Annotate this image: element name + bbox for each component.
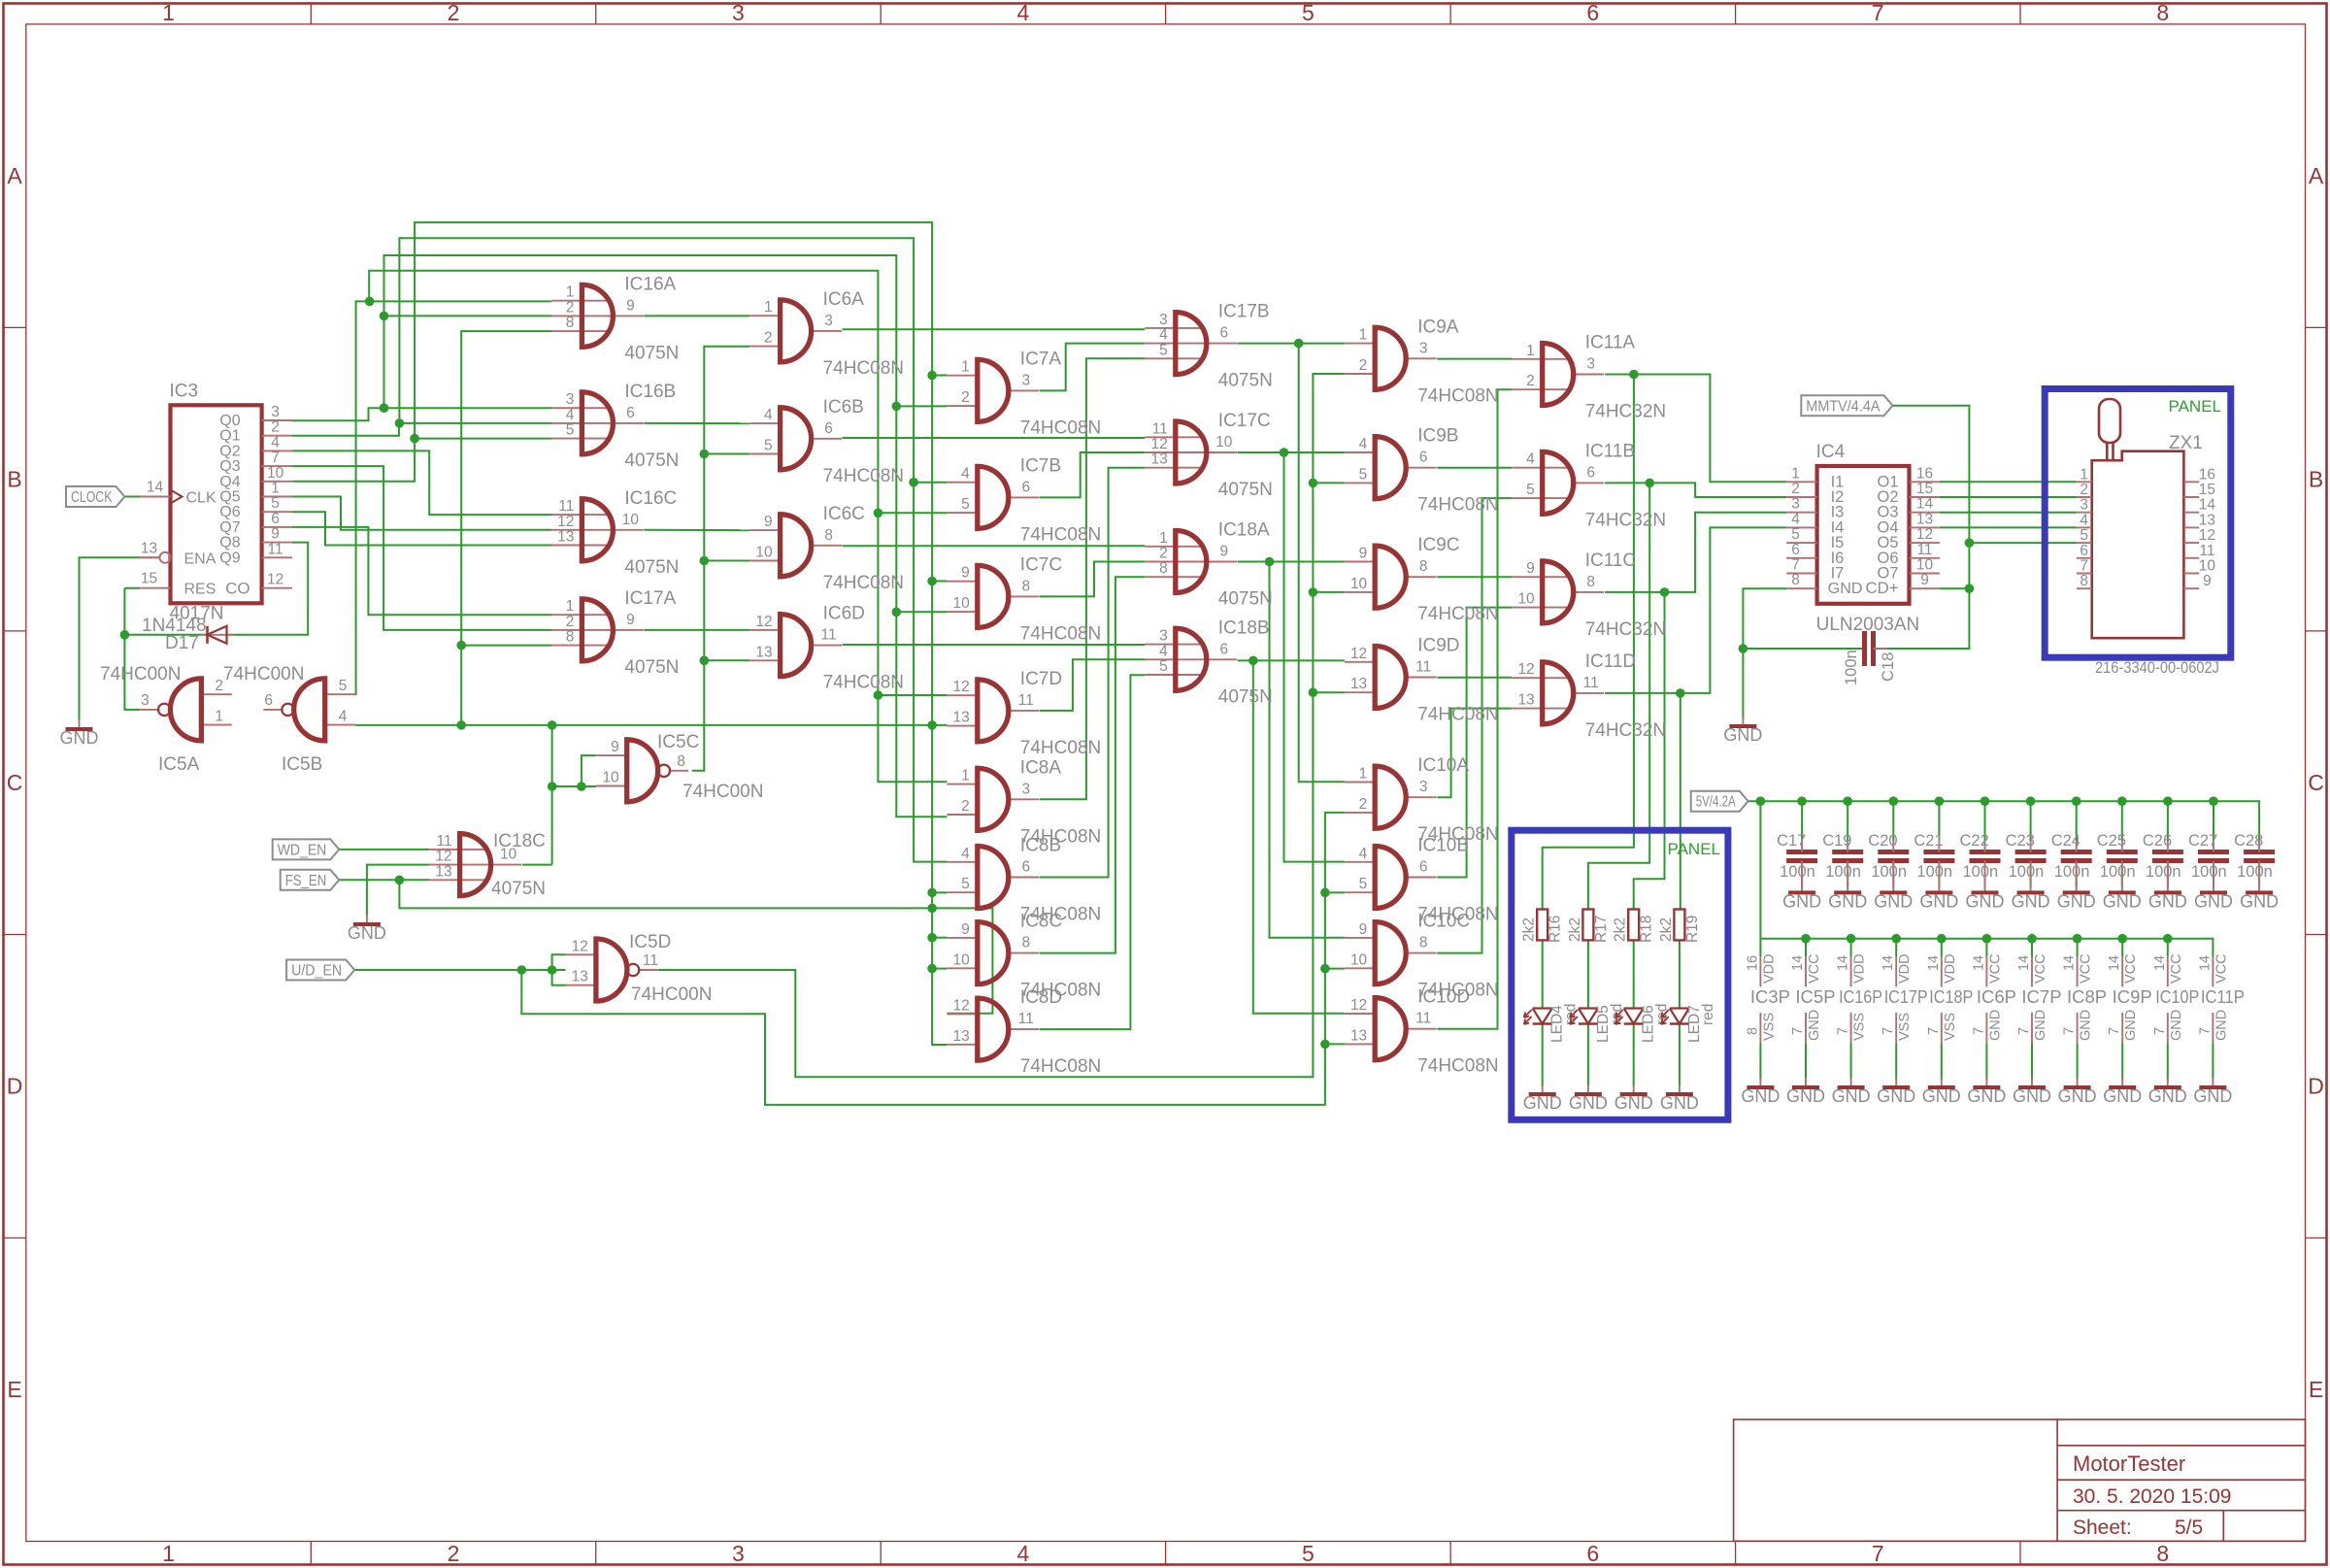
svg-text:IC8P: IC8P xyxy=(2067,986,2107,1007)
svg-text:14: 14 xyxy=(1916,496,1934,513)
svg-text:74HC32N: 74HC32N xyxy=(1585,619,1666,640)
OR gate IC16B (4075N) xyxy=(551,382,679,471)
svg-text:VDD: VDD xyxy=(1943,953,1958,984)
connector ZX1 216-3340-00-0602J body xyxy=(2077,399,2219,677)
wire LED to ground xyxy=(1542,1024,1544,1087)
AND gate IC6A (74HC08N) xyxy=(749,289,904,379)
wire branch to IC10A pin 1 xyxy=(1299,344,1345,783)
AND gate IC8D (74HC08N) xyxy=(947,987,1101,1077)
wire FS_EN branch to IC8D pin 12 xyxy=(399,880,992,1014)
wire IC5B output row to IC7D pin 13 xyxy=(355,724,947,726)
wire rail to capacitor xyxy=(1847,801,1848,841)
svg-text:C28: C28 xyxy=(2234,832,2263,850)
wire branch to IC10D pin 13 xyxy=(1325,1043,1345,1045)
svg-text:6: 6 xyxy=(626,405,635,421)
svg-text:74HC32N: 74HC32N xyxy=(1585,402,1666,422)
svg-text:13: 13 xyxy=(1517,692,1534,709)
svg-text:VCC: VCC xyxy=(1807,953,1822,984)
svg-text:11: 11 xyxy=(1583,675,1599,691)
svg-text:IC18A: IC18A xyxy=(1218,520,1270,541)
svg-text:R19: R19 xyxy=(1684,916,1701,943)
wire IC5D input tie xyxy=(552,954,566,984)
svg-text:C: C xyxy=(2308,770,2324,795)
svg-text:5: 5 xyxy=(339,678,348,694)
svg-text:IC18C: IC18C xyxy=(493,831,546,851)
svg-text:2: 2 xyxy=(448,1541,460,1566)
wire IC10A out to IC11D pin 13 xyxy=(1437,709,1512,798)
svg-text:4075N: 4075N xyxy=(624,657,679,678)
svg-text:Q3: Q3 xyxy=(219,458,240,475)
svg-text:2: 2 xyxy=(2080,482,2088,498)
svg-text:GND: GND xyxy=(2012,891,2050,911)
wire rail to capacitor xyxy=(1892,801,1894,841)
svg-text:8: 8 xyxy=(1159,560,1168,577)
svg-text:10: 10 xyxy=(953,951,971,968)
svg-text:11: 11 xyxy=(1415,659,1431,676)
svg-text:IC8D: IC8D xyxy=(1020,987,1062,1008)
svg-text:5: 5 xyxy=(1359,876,1368,892)
svg-text:13: 13 xyxy=(1350,676,1367,692)
svg-text:16: 16 xyxy=(1745,955,1760,971)
wire rail to capacitor xyxy=(2030,801,2032,841)
wire to IC5C pin 10 xyxy=(552,785,597,787)
svg-text:GND: GND xyxy=(2103,1086,2142,1106)
ground xyxy=(1922,1078,1961,1106)
net label WD_EN xyxy=(273,839,340,859)
svg-text:100n: 100n xyxy=(1780,863,1815,881)
wire IC6B out to IC17C pin 11 xyxy=(843,437,1146,439)
wire branch to IC9B pin 5 xyxy=(1313,482,1344,484)
wire IC6C out to IC18A pin 1 xyxy=(843,545,1146,547)
svg-text:IC11P: IC11P xyxy=(2201,986,2245,1007)
wire U/D_EN staircase to IC10A pin 2 xyxy=(521,813,1345,1105)
svg-text:6: 6 xyxy=(1419,859,1428,876)
wire IC5C output to IC6A pin 2 xyxy=(692,347,750,771)
svg-text:11: 11 xyxy=(2199,543,2214,559)
wire IC5C pin 9 tie xyxy=(582,755,596,786)
svg-text:7: 7 xyxy=(1926,1027,1942,1035)
svg-text:C: C xyxy=(7,770,23,795)
svg-text:VCC: VCC xyxy=(2079,953,2094,984)
wire bus branch to IC8B pin 5 xyxy=(932,891,947,893)
ground xyxy=(1832,1078,1871,1106)
svg-text:5: 5 xyxy=(1791,526,1800,543)
svg-text:D17: D17 xyxy=(165,633,199,653)
ground xyxy=(1874,883,1913,911)
ground xyxy=(1828,883,1867,911)
wire branch to R17 xyxy=(1588,483,1649,909)
resistor R19 2k2 xyxy=(1658,910,1701,944)
svg-text:IC10A: IC10A xyxy=(1417,755,1469,776)
svg-text:C21: C21 xyxy=(1914,832,1943,850)
resistor R16 2k2 xyxy=(1521,910,1564,944)
frame row ticks xyxy=(4,326,26,328)
capacitor C17 100n xyxy=(1777,832,1817,888)
OR gate IC18C (4075N) xyxy=(429,831,546,899)
svg-text:GND: GND xyxy=(1660,1093,1699,1113)
svg-text:9: 9 xyxy=(1219,544,1228,560)
svg-text:GND: GND xyxy=(2213,1010,2229,1041)
svg-text:74HC08N: 74HC08N xyxy=(823,573,904,593)
svg-text:IC6C: IC6C xyxy=(823,504,865,524)
power pins IC9P xyxy=(2107,953,2152,1043)
svg-text:14: 14 xyxy=(2152,955,2168,971)
OR gate IC17C (4075N) xyxy=(1145,411,1272,500)
svg-text:74HC32N: 74HC32N xyxy=(1585,510,1666,530)
AND gate IC6B (74HC08N) xyxy=(749,397,904,486)
svg-text:IC18P: IC18P xyxy=(1929,986,1973,1007)
svg-text:IC5D: IC5D xyxy=(629,932,671,952)
wire RES stub link xyxy=(124,587,140,589)
svg-text:1: 1 xyxy=(1359,327,1368,344)
wire IC11D out to IC4 I4 xyxy=(1605,527,1786,693)
wire IC11C out to IC4 I3 xyxy=(1605,513,1786,592)
wire power pin to ground xyxy=(2212,1043,2213,1080)
wire branch to IC10D pin 12 xyxy=(1253,660,1345,1013)
svg-text:5V/4.2A: 5V/4.2A xyxy=(1696,794,1736,811)
svg-text:GND: GND xyxy=(1786,1086,1825,1106)
svg-text:IC8A: IC8A xyxy=(1020,757,1062,778)
svg-text:GND: GND xyxy=(1832,1086,1871,1106)
svg-text:2: 2 xyxy=(448,0,460,25)
svg-text:5/5: 5/5 xyxy=(2175,1517,2203,1539)
wire IC16A pin 8 to enable row xyxy=(461,331,551,725)
wire IC11A out to IC4 I1 xyxy=(1605,375,1786,483)
svg-text:12: 12 xyxy=(435,849,451,865)
net label U/D_EN xyxy=(286,960,354,981)
connector ZX1 pins xyxy=(2077,481,2092,483)
svg-text:IC18B: IC18B xyxy=(1218,617,1270,638)
wire rail to capacitor xyxy=(1984,801,1986,841)
svg-text:GND: GND xyxy=(1987,1010,2003,1041)
svg-text:IC16B: IC16B xyxy=(624,382,676,402)
wire IC4 O4 to ZX1 pin 4 xyxy=(1940,526,2077,528)
svg-text:8: 8 xyxy=(1021,935,1030,951)
svg-text:IC10C: IC10C xyxy=(1417,912,1470,932)
wire ENA to ground xyxy=(80,557,160,719)
svg-text:15: 15 xyxy=(141,571,157,587)
wire Q0 bus riser to IC8A pin 2 xyxy=(384,255,948,817)
AND gate IC9C (74HC08N) xyxy=(1345,535,1499,624)
wire capacitor to ground xyxy=(2076,861,2078,886)
wire IC7C out to IC18A pin 2 xyxy=(1040,562,1146,597)
svg-text:GND: GND xyxy=(2240,891,2279,911)
net label CLOCK xyxy=(66,486,124,507)
svg-text:GND: GND xyxy=(2057,891,2096,911)
svg-text:Q2: Q2 xyxy=(219,443,240,459)
svg-text:4: 4 xyxy=(1017,0,1030,25)
wire bus branch to IC7C pin 10 xyxy=(896,611,947,613)
OR gate IC11B (74HC32N) xyxy=(1512,441,1666,530)
svg-text:5: 5 xyxy=(1159,658,1168,675)
wire IC7B out to IC17C pin 12 xyxy=(1040,452,1146,497)
wire IC10D out to IC11A pin 2 xyxy=(1437,389,1512,1028)
wire rail to capacitor xyxy=(1938,801,1940,841)
ground xyxy=(1966,883,2005,911)
svg-text:IC3: IC3 xyxy=(170,381,199,401)
wire rail to power pin xyxy=(2077,939,2079,956)
wire IC5D output staircase to IC9A pin 2 xyxy=(658,374,1345,1077)
wire 5V rail xyxy=(1748,801,2259,851)
svg-text:VCC: VCC xyxy=(2123,953,2139,984)
svg-text:4: 4 xyxy=(961,466,970,483)
svg-text:5: 5 xyxy=(271,495,280,512)
svg-text:CLOCK: CLOCK xyxy=(71,489,113,506)
AND gate IC6D (74HC08N) xyxy=(749,604,904,693)
svg-text:GND: GND xyxy=(2058,1086,2097,1106)
svg-text:9: 9 xyxy=(626,297,635,314)
svg-text:100n: 100n xyxy=(2009,863,2045,881)
wire VCC rail xyxy=(1760,939,2213,956)
resistor R18 2k2 xyxy=(1613,910,1655,944)
svg-text:6: 6 xyxy=(1791,542,1800,558)
svg-text:3: 3 xyxy=(1419,779,1428,795)
ground xyxy=(2193,1078,2232,1106)
svg-text:16: 16 xyxy=(1916,465,1933,482)
svg-text:1: 1 xyxy=(271,481,280,497)
svg-text:10: 10 xyxy=(1517,591,1535,608)
svg-text:GND: GND xyxy=(2148,891,2187,911)
capacitor C24 100n xyxy=(2051,832,2092,888)
ground xyxy=(1782,883,1821,911)
svg-text:4: 4 xyxy=(764,407,773,423)
svg-text:9: 9 xyxy=(1359,921,1368,938)
svg-text:R18: R18 xyxy=(1639,916,1655,943)
svg-text:100n: 100n xyxy=(1825,863,1861,881)
wire branch to IC6D pin 13 xyxy=(704,659,749,661)
wire branch to IC17A pin 8 xyxy=(461,645,551,647)
svg-text:3: 3 xyxy=(1586,356,1595,373)
svg-text:GND: GND xyxy=(2193,1086,2232,1106)
svg-text:IC10P: IC10P xyxy=(2155,986,2199,1007)
svg-text:7: 7 xyxy=(1971,1027,1986,1035)
AND gate IC8B (74HC08N) xyxy=(947,836,1101,925)
svg-text:2: 2 xyxy=(566,299,575,316)
svg-text:4: 4 xyxy=(1017,1541,1030,1566)
svg-text:5: 5 xyxy=(1526,482,1535,498)
AND gate IC10D (74HC08N) xyxy=(1345,987,1499,1077)
wire capacitor to ground xyxy=(1938,861,1940,886)
svg-text:8: 8 xyxy=(824,527,833,544)
svg-text:10: 10 xyxy=(1350,951,1368,968)
AND gate IC6C (74HC08N) xyxy=(749,504,904,593)
svg-text:1: 1 xyxy=(215,709,223,725)
svg-text:8: 8 xyxy=(1791,572,1800,588)
svg-text:GND: GND xyxy=(2169,1010,2184,1041)
svg-text:14: 14 xyxy=(2062,955,2078,971)
svg-text:74HC08N: 74HC08N xyxy=(1020,623,1101,644)
wire resistor to LED xyxy=(1542,940,1544,1008)
svg-text:5: 5 xyxy=(1302,0,1315,25)
wire Q7 to IC17A pin 1 xyxy=(292,527,551,615)
svg-text:IC5P: IC5P xyxy=(1795,986,1835,1007)
svg-text:WD_EN: WD_EN xyxy=(278,842,327,858)
power pins IC11P xyxy=(2197,953,2245,1043)
svg-text:100n: 100n xyxy=(2146,863,2181,881)
capacitor C28 100n xyxy=(2234,832,2275,888)
wire resistor to LED xyxy=(1679,940,1681,1008)
svg-text:74HC08N: 74HC08N xyxy=(1020,738,1101,758)
wire rail to power pin xyxy=(2031,939,2033,956)
svg-text:VCC: VCC xyxy=(2033,953,2048,984)
svg-text:red: red xyxy=(1700,1004,1716,1025)
svg-text:3: 3 xyxy=(1419,340,1428,356)
wire Q2 to IC16C pin 11 xyxy=(292,450,551,515)
svg-text:IC16A: IC16A xyxy=(624,274,676,294)
wire resistor to LED xyxy=(1633,940,1635,1008)
svg-text:12: 12 xyxy=(267,572,283,588)
svg-text:GND: GND xyxy=(1877,1086,1915,1106)
svg-text:B: B xyxy=(7,467,21,492)
svg-text:1: 1 xyxy=(1526,343,1535,359)
svg-text:9: 9 xyxy=(961,921,970,938)
svg-text:14: 14 xyxy=(1926,955,1942,971)
wire IC4 GND pin to ground xyxy=(1743,588,1786,719)
wire branch to R16 xyxy=(1543,375,1634,910)
svg-text:GND: GND xyxy=(2103,891,2142,911)
svg-text:IC3P: IC3P xyxy=(1750,986,1790,1007)
svg-text:IC16P: IC16P xyxy=(1839,986,1882,1007)
svg-text:IC10D: IC10D xyxy=(1417,987,1470,1008)
wire bus riser to IC8A pin 1 xyxy=(369,271,947,783)
svg-text:VCC: VCC xyxy=(1987,953,2003,984)
svg-text:1: 1 xyxy=(566,284,575,301)
svg-text:3: 3 xyxy=(566,391,575,408)
wire rail to power pin xyxy=(1850,939,1852,956)
wire MMTV to C18 xyxy=(1874,406,1970,649)
wire MMTV branch to ZX1 pin 5 xyxy=(1969,542,2076,544)
wire Q6 to IC16C pin 13 xyxy=(292,512,551,545)
frame column ticks xyxy=(310,4,312,24)
wire branch to IC6C pin 10 xyxy=(704,560,749,562)
svg-text:U/D_EN: U/D_EN xyxy=(291,963,342,980)
svg-text:16: 16 xyxy=(2199,466,2215,483)
svg-text:R17: R17 xyxy=(1593,916,1610,943)
svg-text:8: 8 xyxy=(1021,578,1030,594)
ground xyxy=(2148,883,2187,911)
svg-text:74HC00N: 74HC00N xyxy=(682,782,763,802)
svg-text:11: 11 xyxy=(821,627,837,644)
svg-text:IC11C: IC11C xyxy=(1585,550,1636,571)
svg-text:4: 4 xyxy=(961,846,970,862)
wire IC16C out to IC6C pin 9 xyxy=(644,529,749,531)
wire rail to capacitor xyxy=(2121,801,2123,841)
power pins IC17P xyxy=(1881,953,1928,1043)
svg-text:Sheet:: Sheet: xyxy=(2073,1517,2132,1539)
svg-text:6: 6 xyxy=(1021,859,1030,876)
svg-text:1: 1 xyxy=(764,299,773,316)
svg-text:4: 4 xyxy=(339,709,348,725)
wire ground node to C18 xyxy=(1743,648,1864,650)
svg-text:5: 5 xyxy=(961,876,970,892)
capacitor C27 100n xyxy=(2188,832,2229,888)
svg-text:IC17B: IC17B xyxy=(1218,302,1270,322)
svg-text:100n: 100n xyxy=(1871,863,1907,881)
svg-text:1: 1 xyxy=(1159,530,1168,547)
power pins IC7P xyxy=(2016,953,2062,1043)
svg-text:7: 7 xyxy=(1791,557,1800,574)
svg-text:10: 10 xyxy=(2199,558,2216,575)
ground xyxy=(2194,883,2233,911)
svg-text:3: 3 xyxy=(1159,628,1168,645)
wire power pin to ground xyxy=(1941,1043,1943,1080)
svg-text:13: 13 xyxy=(435,863,451,880)
svg-text:IC4: IC4 xyxy=(1816,442,1846,462)
power pins IC16P xyxy=(1836,953,1883,1043)
svg-text:11: 11 xyxy=(643,952,658,969)
svg-text:14: 14 xyxy=(147,480,164,496)
AND gate IC9D (74HC08N) xyxy=(1345,636,1499,725)
wire branch to IC10B pin 5 xyxy=(1325,891,1345,893)
svg-text:6: 6 xyxy=(1219,641,1228,657)
svg-text:IC9P: IC9P xyxy=(2113,986,2152,1007)
svg-text:GND: GND xyxy=(1874,891,1913,911)
svg-text:IC6A: IC6A xyxy=(823,289,865,310)
svg-text:11: 11 xyxy=(268,541,283,557)
ground xyxy=(2103,1078,2142,1106)
wire branch to R19 xyxy=(1680,693,1681,910)
wire branch to IC9C pin 10 xyxy=(1313,591,1344,593)
svg-text:6: 6 xyxy=(2080,543,2088,559)
svg-text:C27: C27 xyxy=(2188,832,2217,850)
wire power pin to ground xyxy=(2077,1043,2079,1080)
svg-text:11: 11 xyxy=(1018,692,1034,709)
svg-text:4: 4 xyxy=(1526,451,1535,468)
wire rail to capacitor xyxy=(2167,801,2169,841)
svg-text:C25: C25 xyxy=(2097,832,2126,850)
svg-text:4: 4 xyxy=(566,407,575,423)
svg-text:12: 12 xyxy=(2199,527,2215,544)
wire Q0 to IC16B pin 3 xyxy=(292,408,551,420)
svg-text:6: 6 xyxy=(1586,464,1595,481)
svg-text:GND: GND xyxy=(60,728,99,748)
wire IC8B out to IC17C pin 13 xyxy=(1040,468,1146,878)
svg-text:9: 9 xyxy=(961,565,970,582)
svg-text:13: 13 xyxy=(1350,1027,1367,1044)
wire rail to capacitor xyxy=(1801,801,1803,841)
svg-text:4075N: 4075N xyxy=(1218,480,1273,500)
svg-text:GND: GND xyxy=(348,923,386,943)
power pins IC8P xyxy=(2062,953,2108,1043)
svg-text:6: 6 xyxy=(271,511,280,527)
svg-text:CD+: CD+ xyxy=(1866,580,1899,597)
svg-text:5: 5 xyxy=(961,496,970,513)
svg-text:IC17A: IC17A xyxy=(624,588,676,609)
capacitor C21 100n xyxy=(1914,832,1954,888)
svg-text:VCC: VCC xyxy=(2169,953,2184,984)
svg-text:IC7B: IC7B xyxy=(1020,455,1061,476)
svg-text:IC17P: IC17P xyxy=(1884,986,1928,1007)
svg-text:IC6D: IC6D xyxy=(823,604,865,624)
svg-text:A: A xyxy=(2309,163,2324,188)
svg-text:10: 10 xyxy=(755,545,773,561)
AND gate IC9A (74HC08N) xyxy=(1345,317,1499,406)
wire IC8D out to IC18B pin 5 xyxy=(1040,675,1146,1029)
wire IC16A out to IC6A pin 1 xyxy=(644,315,749,317)
svg-text:13: 13 xyxy=(572,969,588,985)
wire IC18C output to tie xyxy=(522,864,552,866)
NAND gate IC5D (74HC00N) xyxy=(566,932,713,1005)
svg-text:14: 14 xyxy=(1881,955,1896,971)
AND gate IC8A (74HC08N) xyxy=(947,757,1101,847)
svg-text:GND: GND xyxy=(1828,581,1863,597)
svg-text:IC11A: IC11A xyxy=(1585,333,1636,353)
svg-text:74HC08N: 74HC08N xyxy=(1020,1056,1101,1077)
svg-text:MotorTester: MotorTester xyxy=(2073,1451,2185,1476)
AND gate IC10C (74HC08N) xyxy=(1345,912,1499,1001)
svg-text:1: 1 xyxy=(1791,465,1800,482)
svg-text:GND: GND xyxy=(1922,1086,1961,1106)
